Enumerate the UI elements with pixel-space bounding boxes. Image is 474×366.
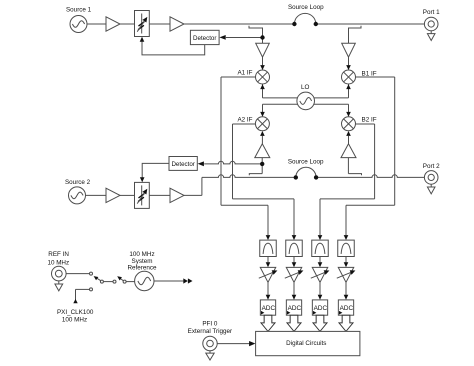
svg-text:PXI_CLK100: PXI_CLK100	[57, 309, 94, 316]
svg-text:Source 1: Source 1	[66, 7, 92, 14]
svg-text:External Trigger: External Trigger	[188, 328, 232, 335]
svg-text:10 MHz: 10 MHz	[47, 259, 69, 266]
svg-text:Source Loop: Source Loop	[288, 159, 324, 166]
svg-text:Source Loop: Source Loop	[288, 4, 324, 11]
svg-text:B1 IF: B1 IF	[362, 70, 377, 77]
svg-text:Reference: Reference	[127, 265, 157, 272]
svg-text:Detector: Detector	[171, 161, 194, 168]
svg-text:Port 1: Port 1	[423, 9, 440, 16]
svg-text:Digital Circuits: Digital Circuits	[286, 340, 326, 347]
svg-text:ADC: ADC	[262, 305, 276, 312]
svg-text:ADC: ADC	[340, 305, 354, 312]
svg-text:LO: LO	[301, 84, 310, 91]
svg-text:Detector: Detector	[193, 35, 216, 42]
svg-text:REF IN: REF IN	[48, 251, 69, 258]
svg-text:Source 2: Source 2	[65, 179, 91, 186]
svg-text:B2 IF: B2 IF	[362, 116, 377, 123]
svg-text:ADC: ADC	[288, 305, 302, 312]
svg-text:A1 IF: A1 IF	[237, 70, 252, 77]
svg-text:ADC: ADC	[314, 305, 328, 312]
svg-text:A2 IF: A2 IF	[237, 117, 252, 124]
svg-text:100 MHz: 100 MHz	[62, 317, 87, 324]
svg-text:PFI 0: PFI 0	[202, 321, 218, 328]
svg-text:Port 2: Port 2	[423, 163, 440, 170]
